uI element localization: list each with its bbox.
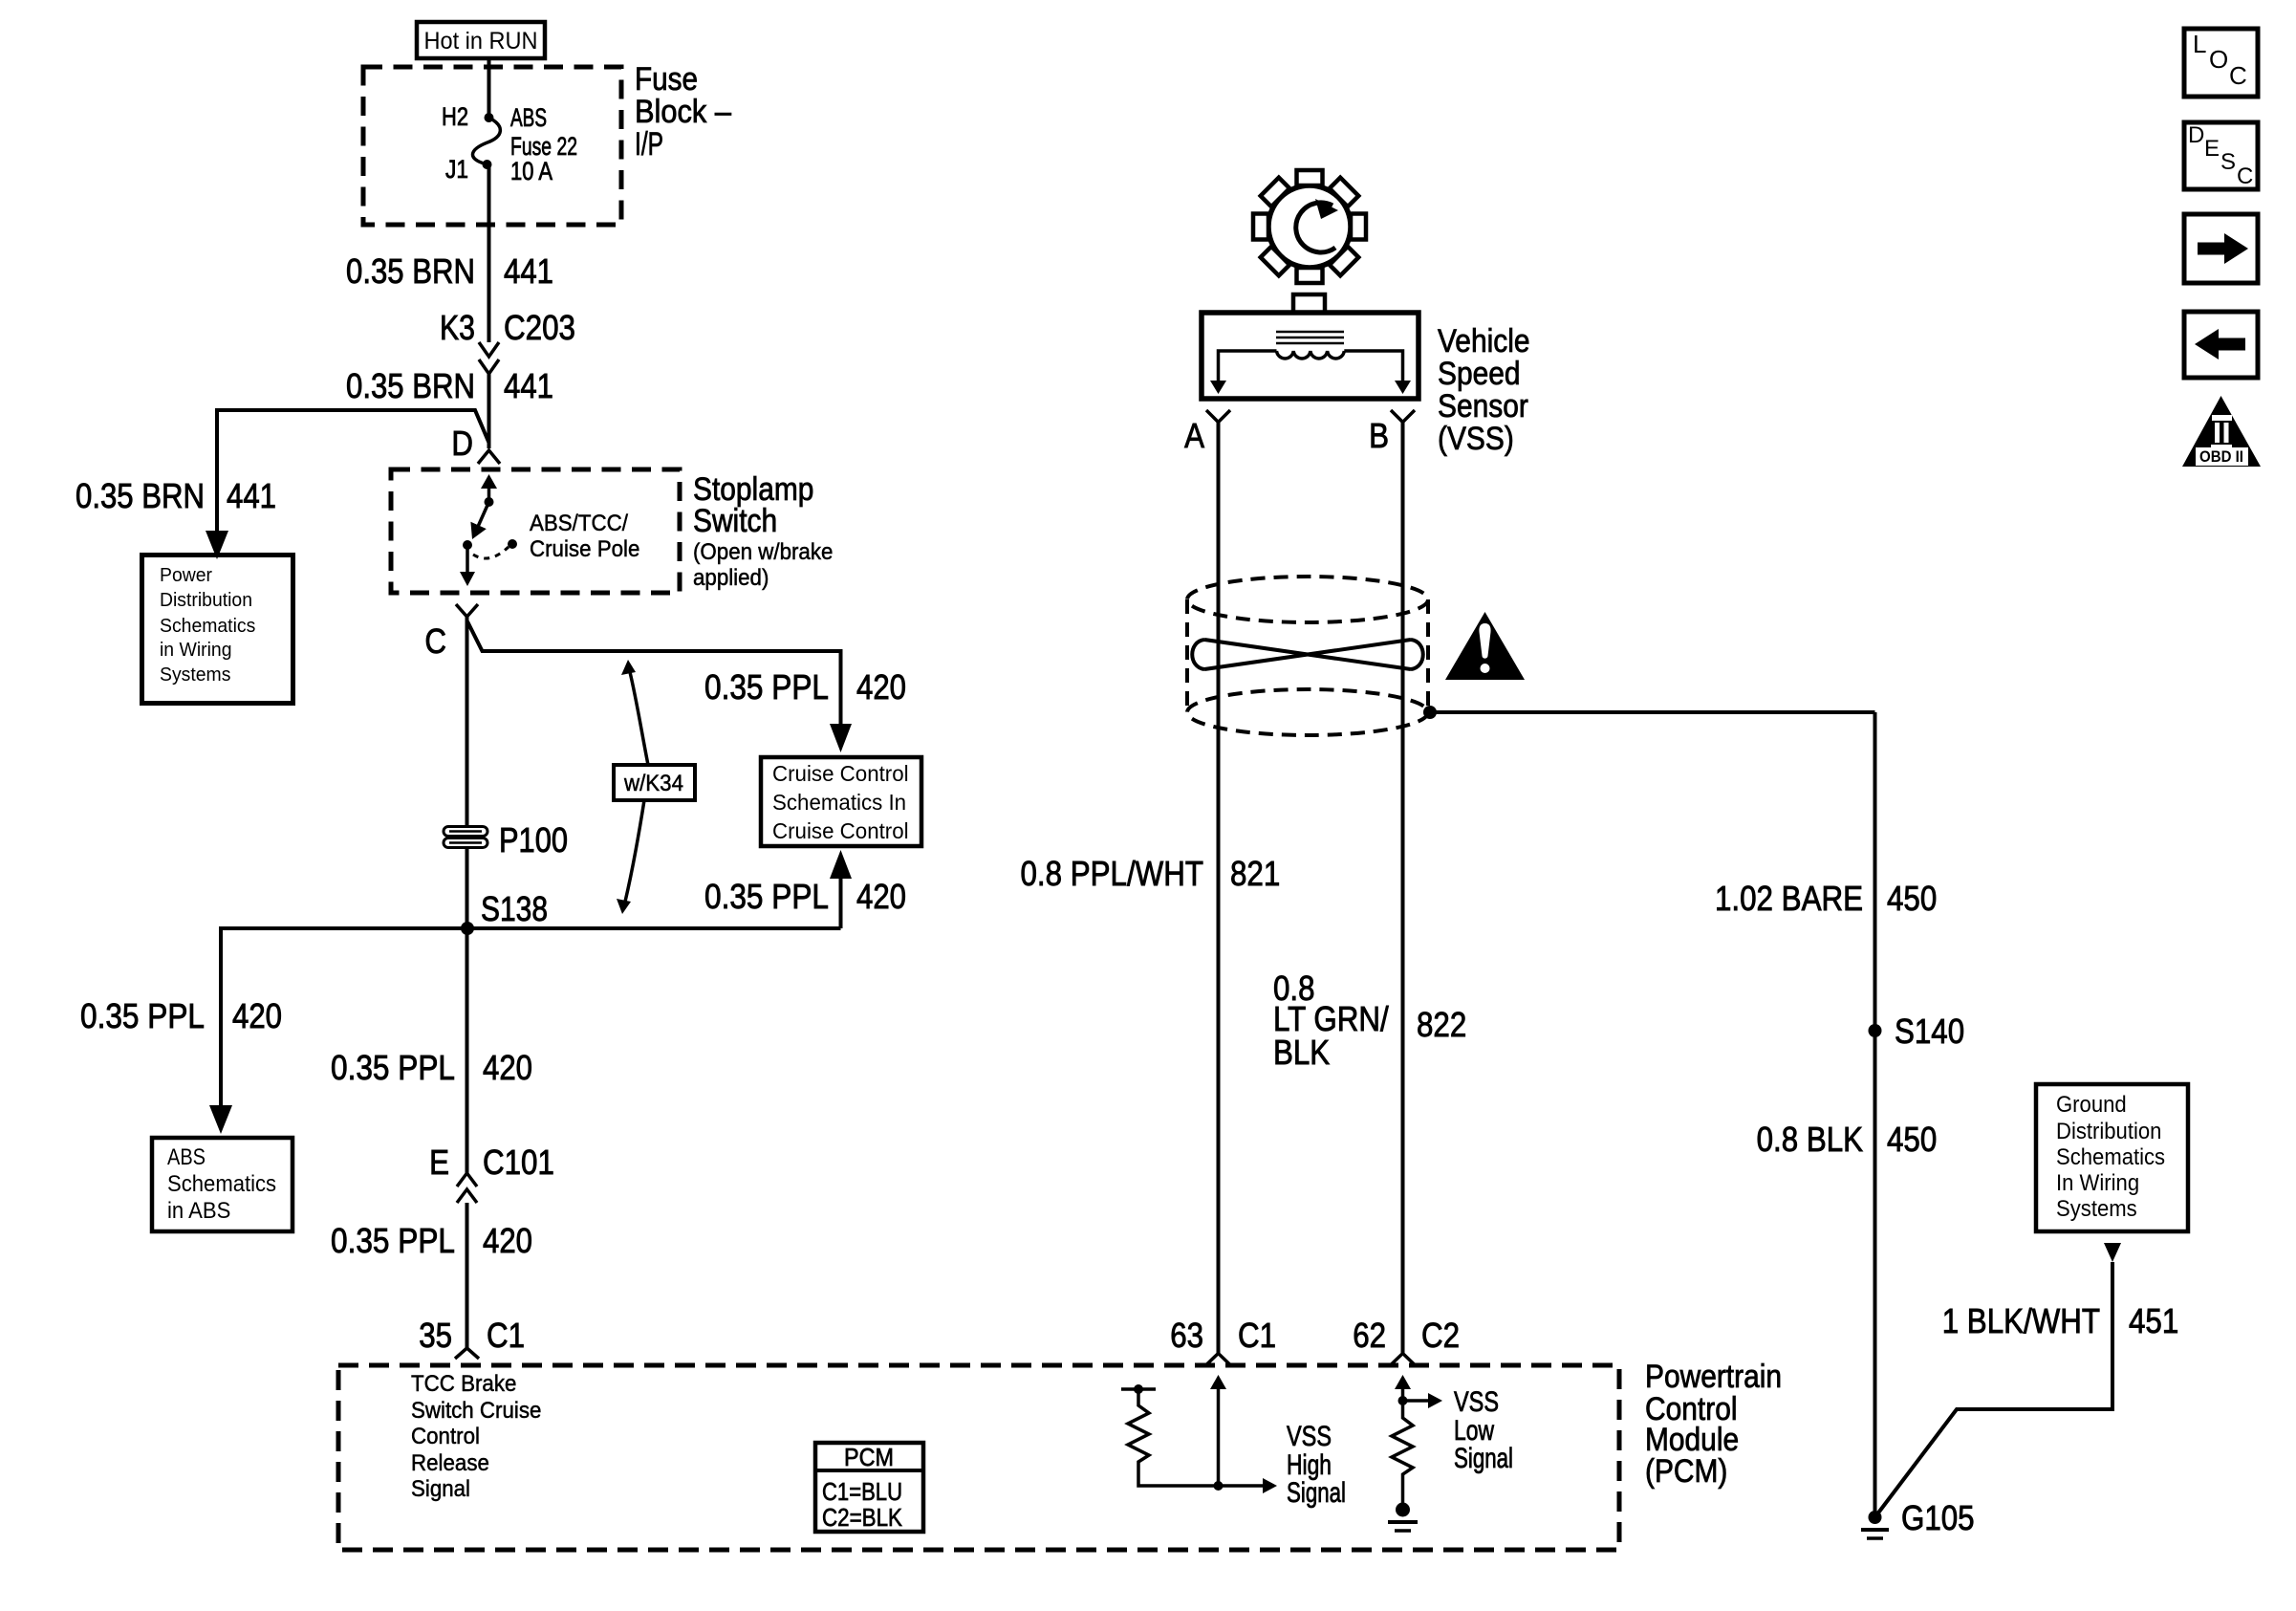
svg-text:ABS/TCC/: ABS/TCC/ (530, 511, 628, 536)
wire: Hot in RUN down to fuse terminal H2 (487, 58, 491, 118)
stoplamp switch: movable blade arrow (477, 502, 489, 529)
svg-text:B: B (1369, 416, 1389, 455)
svg-text:0.35 BRN: 0.35 BRN (346, 251, 475, 291)
twisted pair bow-tie symbol (1192, 640, 1423, 669)
svg-text:Systems: Systems (160, 664, 230, 686)
svg-text:420: 420 (483, 1221, 532, 1260)
splice S138 junction dot (461, 922, 474, 935)
wire label: 0.35 BRN 441 (below C203) (346, 366, 553, 405)
svg-text:420: 420 (232, 996, 282, 1035)
svg-text:OBD II: OBD II (2199, 447, 2243, 466)
svg-text:S: S (2220, 149, 2236, 175)
svg-text:Vehicle: Vehicle (1438, 323, 1530, 359)
icon OBD II triangle (2182, 396, 2261, 467)
in-line connector C203 chevrons (479, 342, 499, 374)
svg-text:Schematics In: Schematics In (772, 790, 906, 815)
wire label: 1 BLK/WHT 451 (1942, 1301, 2179, 1340)
PCM internal: VSS high junction dot (1214, 1481, 1224, 1491)
fuse ABS Fuse 22 10A element (472, 118, 500, 164)
svg-text:S138: S138 (481, 889, 548, 928)
wire: S138 down to connector C101 (466, 928, 469, 1173)
svg-text:Hot in RUN: Hot in RUN (424, 28, 538, 54)
wire: shield drain to ground run (1430, 710, 1875, 714)
svg-text:Fuse: Fuse (635, 61, 698, 98)
fuse terminal J1 dot (483, 160, 492, 169)
svg-text:Switch: Switch (693, 503, 777, 539)
VSS internal lead A (1219, 351, 1277, 381)
svg-text:C: C (2229, 61, 2247, 90)
svg-text:C101: C101 (483, 1143, 554, 1182)
shield drain junction dot (1423, 706, 1437, 719)
svg-text:Schematics: Schematics (2056, 1144, 2165, 1170)
label: Vehicle Speed Sensor (VSS) (1438, 323, 1530, 457)
wire: fuse J1 down to connector C203 (487, 164, 491, 342)
wire A: sensor to PCM pin 63 (1217, 423, 1221, 1354)
PCM internal resistor R-high (1128, 1389, 1219, 1486)
svg-text:C1: C1 (487, 1316, 525, 1355)
svg-text:BLK: BLK (1273, 1033, 1330, 1072)
label: VSS High Signal (1287, 1421, 1346, 1509)
svg-text:Signal: Signal (411, 1476, 470, 1502)
in-line connector C101 chevrons (457, 1173, 477, 1203)
stoplamp switch: lower contact arrow (466, 545, 469, 575)
wire label: 0.8 PPL/WHT 821 (1021, 854, 1281, 893)
svg-text:In Wiring: In Wiring (2056, 1170, 2139, 1196)
svg-text:Cruise Control: Cruise Control (772, 818, 909, 843)
svg-text:451: 451 (2129, 1301, 2178, 1340)
twisted pair shield: top dashed ellipse (1187, 577, 1428, 622)
svg-text:S140: S140 (1895, 1012, 1964, 1051)
svg-text:441: 441 (504, 366, 553, 405)
svg-text:Speed: Speed (1438, 356, 1521, 392)
svg-text:VSS: VSS (1454, 1386, 1499, 1418)
power feed tag: Hot in RUN box (417, 22, 545, 58)
svg-text:441: 441 (504, 251, 553, 291)
svg-text:0.35 BRN: 0.35 BRN (76, 476, 205, 515)
connector fork at PCM pin 35 (455, 1348, 479, 1359)
stoplamp switch: alternate contact dot (508, 539, 517, 549)
svg-text:1 BLK/WHT: 1 BLK/WHT (1942, 1301, 2100, 1340)
svg-text:Signal: Signal (1287, 1477, 1346, 1509)
wire: S138 to cruise branch horizontal (467, 926, 841, 930)
VSS pickup core lines (1276, 332, 1344, 343)
svg-text:821: 821 (1230, 854, 1280, 893)
wire: C101 to PCM pin 35 (466, 1203, 469, 1348)
svg-text:J1: J1 (445, 155, 468, 184)
svg-text:Sensor: Sensor (1438, 388, 1528, 425)
arrowhead from ground distribution box (2104, 1243, 2121, 1262)
wire: branch to Power Distribution (217, 410, 489, 532)
stoplamp switch dashed box (391, 469, 680, 593)
stoplamp switch: upper contact arrow (487, 483, 491, 502)
wire: shield ground run down to G105 (1874, 712, 1877, 1517)
svg-text:C1=BLU: C1=BLU (822, 1477, 902, 1506)
reference box: Power Distribution Schematics in Wiring Systems (142, 555, 293, 704)
label: ABS/TCC/ Cruise Pole (530, 511, 639, 562)
svg-text:G105: G105 (1901, 1498, 1975, 1537)
VSS internal lead B (1344, 351, 1402, 381)
wire: C203 to stoplamp switch terminal D (487, 374, 491, 448)
pin label 35 C1 (419, 1316, 525, 1355)
svg-text:0.35 BRN: 0.35 BRN (346, 366, 475, 405)
svg-text:Powertrain: Powertrain (1645, 1359, 1782, 1395)
PCM internal: pull-up bar and dot (1121, 1387, 1156, 1391)
splice S140 (1869, 1024, 1882, 1037)
svg-text:62: 62 (1353, 1316, 1386, 1355)
svg-text:1.02 BARE: 1.02 BARE (1715, 879, 1863, 918)
PCM dashed box (338, 1365, 1619, 1550)
wire label: 0.35 PPL 420 (below C101) (331, 1221, 532, 1260)
label: TCC Brake Switch Cruise Control Release Signal (411, 1371, 541, 1502)
label: K3 C203 (440, 308, 575, 347)
svg-text:Release: Release (411, 1450, 489, 1476)
svg-text:Signal: Signal (1454, 1443, 1513, 1474)
svg-text:0.8 BLK: 0.8 BLK (1757, 1120, 1863, 1159)
svg-text:P100: P100 (499, 820, 568, 860)
twisted pair shield: side dashes (1187, 599, 1428, 712)
connector fork at sensor pin A (1206, 410, 1230, 423)
wire label: 0.35 BRN 441 (branch) (76, 476, 276, 515)
arrowhead into Power Distribution box (206, 531, 228, 559)
svg-text:0.35 PPL: 0.35 PPL (80, 996, 205, 1035)
wire label: 0.35 PPL 420 (ABS branch) (80, 996, 282, 1035)
VSS sensor stub (1293, 294, 1325, 313)
svg-text:(PCM): (PCM) (1645, 1453, 1727, 1490)
svg-text:Distribution: Distribution (160, 590, 252, 611)
connector fork at PCM pin 62 (1391, 1354, 1415, 1365)
pin label 63 C1 (1170, 1316, 1276, 1355)
svg-text:Schematics: Schematics (167, 1171, 276, 1197)
svg-text:Control: Control (411, 1424, 480, 1449)
stoplamp switch: pole dot (463, 540, 472, 550)
VSS pickup coil (1277, 351, 1345, 359)
fuse block dashed box (363, 67, 621, 225)
fuse F22 terminal H2 dot (485, 113, 494, 122)
PCM internal: VSS low signal arrow right (1403, 1399, 1430, 1403)
label: Powertrain Control Module (PCM) (1645, 1359, 1782, 1490)
svg-text:Switch Cruise: Switch Cruise (411, 1398, 541, 1424)
pin label 62 C2 (1353, 1316, 1460, 1355)
wire B: sensor to PCM pin 62 (1401, 423, 1405, 1354)
svg-text:H2: H2 (442, 102, 468, 131)
vehicle speed sensor box (1202, 313, 1419, 399)
svg-text:(VSS): (VSS) (1438, 421, 1514, 457)
PCM internal resistor R-low (1392, 1401, 1413, 1503)
fuse value label: ABS Fuse 22 10 A (510, 103, 577, 185)
svg-text:420: 420 (856, 667, 906, 707)
svg-text:0.8 PPL/WHT: 0.8 PPL/WHT (1021, 854, 1204, 893)
wire: ground distribution box to G105 (1876, 1262, 2112, 1515)
svg-text:441: 441 (227, 476, 276, 515)
PCM internal: VSS low junction dot (1398, 1396, 1408, 1405)
reference box: Ground Distribution Schematics In Wiring Systems (2036, 1084, 2188, 1231)
wire label: 0.35 PPL 420 (S138 to cruise) (704, 877, 906, 916)
svg-text:(Open w/brake: (Open w/brake (693, 539, 833, 565)
icon DESC (2184, 122, 2258, 189)
svg-text:D: D (451, 424, 473, 463)
svg-text:Block –: Block – (635, 94, 731, 130)
twisted pair shield: bottom dashed ellipse (1187, 689, 1428, 735)
svg-text:applied): applied) (693, 565, 769, 591)
wire label: 0.35 PPL 420 (to cruise control) (704, 667, 906, 707)
label: Fuse Block - I/P (635, 61, 731, 163)
svg-text:ABS: ABS (167, 1144, 206, 1170)
svg-text:822: 822 (1417, 1005, 1466, 1044)
reference box: Cruise Control Schematics In Cruise Control (761, 757, 921, 846)
wire label: 0.35 PPL 420 (above C101) (331, 1048, 532, 1087)
PCM internal: VSS high signal input arrow (1217, 1386, 1221, 1486)
wire: S138 run up to cruise control box (839, 876, 843, 928)
svg-text:0.35 PPL: 0.35 PPL (704, 877, 829, 916)
svg-text:Schematics: Schematics (160, 616, 255, 637)
w/K34 pointer arrow down (625, 800, 644, 902)
wire label: 0.8 LT GRN/ BLK 822 (1273, 969, 1466, 1072)
icon arrow right (2184, 214, 2258, 283)
svg-text:420: 420 (856, 877, 906, 916)
PCM internal: VSS high signal arrow right (1219, 1484, 1265, 1488)
wire: branch S138 to ABS schematics (221, 928, 467, 1105)
terminal label E and connector label C101 (429, 1143, 554, 1182)
svg-text:I/P: I/P (635, 126, 663, 163)
svg-text:in ABS: in ABS (167, 1198, 230, 1224)
svg-text:Distribution: Distribution (2056, 1119, 2161, 1144)
svg-text:Cruise Control: Cruise Control (772, 761, 909, 786)
warning triangle (1445, 612, 1525, 680)
svg-text:Power: Power (160, 565, 212, 586)
svg-text:in Wiring: in Wiring (160, 640, 232, 661)
svg-text:0.35 PPL: 0.35 PPL (331, 1221, 455, 1260)
svg-text:C203: C203 (504, 308, 575, 347)
svg-text:TCC Brake: TCC Brake (411, 1371, 516, 1397)
reference box: ABS Schematics in ABS (152, 1138, 292, 1231)
svg-text:450: 450 (1887, 879, 1937, 918)
svg-text:w/K34: w/K34 (623, 771, 683, 796)
svg-text:0.35 PPL: 0.35 PPL (331, 1048, 455, 1087)
arrowhead into ABS box (209, 1105, 232, 1134)
stoplamp switch: dashed travel arc (473, 547, 509, 558)
svg-text:420: 420 (483, 1048, 532, 1087)
svg-text:VSS: VSS (1287, 1421, 1332, 1452)
PCM internal ground (1388, 1503, 1418, 1532)
svg-text:O: O (2209, 45, 2228, 74)
svg-text:Ground: Ground (2056, 1092, 2127, 1118)
svg-text:K3: K3 (440, 308, 475, 347)
connector fork at PCM pin 63 (1206, 1354, 1230, 1365)
svg-text:A: A (1184, 416, 1204, 455)
PCM connector legend box (815, 1443, 923, 1532)
connector fork at terminal C (456, 604, 478, 617)
VSS tone wheel gear teeth (1253, 170, 1366, 283)
VSS gear rotation arrow (1296, 203, 1335, 252)
VSS tone wheel gear body (1268, 185, 1351, 268)
wire: branch C to cruise control feed (467, 621, 841, 724)
svg-text:0.35 PPL: 0.35 PPL (704, 667, 829, 707)
svg-text:Cruise Pole: Cruise Pole (530, 536, 639, 562)
ground G105 (1861, 1511, 1889, 1538)
wire label: 0.35 BRN 441 (above C203) (346, 251, 553, 291)
connector fork at terminal D (478, 450, 500, 464)
w/K34 tag box (614, 765, 695, 800)
stoplamp switch: upper contact dot (485, 497, 494, 507)
w/K34 pointer arrow up (630, 672, 648, 765)
arrowhead into Cruise Control box (830, 724, 852, 752)
wire label: 0.8 BLK 450 (1757, 1120, 1938, 1159)
svg-text:Systems: Systems (2056, 1196, 2137, 1222)
svg-text:C: C (424, 621, 446, 661)
svg-text:PCM: PCM (844, 1443, 894, 1471)
svg-text:63: 63 (1170, 1316, 1203, 1355)
icon arrow left (2184, 312, 2258, 378)
wire: terminal C down to P100 (466, 617, 469, 828)
svg-text:D: D (2188, 122, 2204, 148)
label: Stoplamp Switch (Open w/brake applied) (693, 471, 833, 591)
connector fork at sensor pin B (1391, 410, 1415, 423)
svg-text:10 A: 10 A (510, 157, 552, 185)
svg-text:C2: C2 (1421, 1316, 1460, 1355)
label: VSS Low Signal (1454, 1386, 1513, 1474)
wire label: 1.02 BARE 450 (1715, 879, 1937, 918)
arrowhead up into Cruise Control box (830, 850, 852, 879)
svg-text:C: C (2237, 163, 2253, 189)
wire: P100 to S138 (466, 848, 469, 928)
icon LOC (2184, 29, 2258, 97)
in-line connector P100 (444, 827, 487, 848)
svg-text:E: E (2204, 136, 2220, 162)
svg-text:ABS: ABS (510, 103, 547, 132)
svg-text:L: L (2193, 30, 2206, 58)
svg-text:C1: C1 (1238, 1316, 1276, 1355)
svg-text:450: 450 (1887, 1120, 1937, 1159)
PCM internal: VSS low signal input arrow (1401, 1386, 1405, 1401)
svg-text:35: 35 (419, 1316, 452, 1355)
svg-text:C2=BLK: C2=BLK (822, 1503, 903, 1532)
svg-text:E: E (429, 1143, 449, 1182)
